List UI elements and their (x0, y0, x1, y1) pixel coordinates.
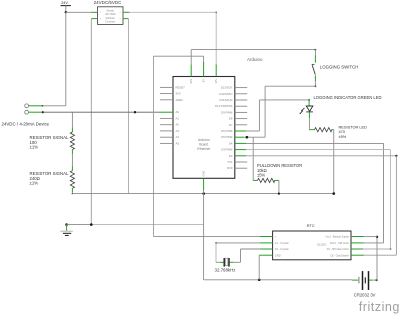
wire LED cathode to resistor (308, 118, 310, 130)
wire pulldown right down to GND rail (278, 180, 280, 193)
resistor RESISTOR LED 470 (309, 125, 367, 139)
arduino top pin legs (191, 62, 216, 77)
svg-text:CR2032 3V: CR2032 3V (354, 293, 376, 298)
svg-text:DS1302: DS1302 (317, 243, 327, 246)
arduino D5 pin leg and wire with junction (235, 136, 265, 139)
svg-text:OKI-78SR: OKI-78SR (105, 14, 116, 16)
rtc U2 DS1302 (273, 223, 351, 260)
svg-text:I/O - SPI Data In/Out: I/O - SPI Data In/Out (327, 248, 349, 251)
svg-text:Converter: Converter (105, 20, 115, 23)
svg-text:Arduino: Arduino (247, 57, 263, 62)
svg-text:RX0: RX0 (227, 166, 233, 170)
wire RTC GND down to bottom rail (258, 255, 260, 280)
wire LED resistor down to GND rail junction (332, 130, 335, 195)
svg-text:D8: D8 (229, 117, 233, 121)
wire connector pin1 to 24V line (29, 105, 66, 107)
battery CR2032 3V (352, 271, 376, 298)
arduino U1 Arduino Board Ethernet (173, 77, 235, 179)
svg-text:D13/SCK: D13/SCK (221, 86, 233, 90)
wire RTC CE to D2 drop (363, 254, 396, 256)
svg-text:Std Buck: Std Buck (106, 17, 116, 20)
wire crystal to RTC X2 (230, 249, 260, 262)
svg-text:24V: 24V (61, 1, 68, 5)
svg-text:A5: A5 (176, 141, 180, 145)
svg-text:24VDC/5VDC: 24VDC/5VDC (94, 0, 123, 5)
svg-text:A1: A1 (176, 116, 180, 120)
svg-text:2: 2 (100, 19, 101, 21)
wire D5 node down to pulldown resistor (252, 137, 254, 180)
wire 24V flag to converter input (66, 11, 91, 13)
wire battery plus up to RTC Vcc1 (363, 236, 378, 282)
switch LOGGING SWITCH (312, 56, 359, 82)
svg-text:A3: A3 (176, 129, 180, 133)
svg-text:X1 - Crystal: X1 - Crystal (275, 241, 289, 245)
svg-text:A0: A0 (176, 110, 180, 114)
arduino D2 pin leg and wire to RTC CE (235, 155, 398, 256)
wire RTC X1 to crystal (215, 242, 259, 262)
svg-text:A4: A4 (176, 135, 180, 139)
svg-text:D10 PWM/SS: D10 PWM/SS (215, 104, 232, 108)
led LOGGING INDICATOR GREEN LED (300, 95, 382, 118)
svg-text:±5%: ±5% (257, 173, 266, 178)
svg-text:D3 PWM: D3 PWM (221, 148, 233, 152)
svg-text:D6 PWM: D6 PWM (221, 129, 233, 133)
arduino A0 pin leg (160, 111, 173, 113)
wire arduino 3V3 up and over to logging switch (191, 49, 316, 65)
svg-text:D5 PWM: D5 PWM (221, 135, 233, 139)
wire switch bottom to D5 (265, 81, 316, 137)
svg-text:X2 - Crystal: X2 - Crystal (275, 247, 289, 251)
wire A0 node down to R1 (71, 112, 73, 127)
wire bottom GND rail to battery (204, 279, 352, 282)
wire 5V drop over to RTC Vcc2 (154, 236, 260, 238)
arduino D6 pin leg and wire to LED (235, 99, 310, 131)
svg-text:SCLK - SPI Clock: SCLK - SPI Clock (330, 242, 350, 245)
junction arduino GND (202, 192, 205, 195)
svg-text:fritzing: fritzing (359, 300, 400, 314)
arduino left unconnected pin stubs (160, 87, 173, 143)
svg-text:Vcc1 - Backup Supply: Vcc1 - Backup Supply (325, 236, 349, 239)
svg-text:LOGGING INDICATOR GREEN LED: LOGGING INDICATOR GREEN LED (314, 95, 382, 100)
svg-text:1: 1 (100, 12, 101, 14)
wire converter GND output down to GND rail (128, 19, 130, 194)
arduino D4 pin leg and wire to RTC SCLK (235, 143, 384, 243)
resistor PULLDOWN RESISTOR 10k (253, 163, 302, 182)
wire RTC IO to D3 drop (363, 248, 390, 250)
svg-text:D12/MISO: D12/MISO (219, 92, 233, 96)
rtc left pin labels (275, 236, 289, 258)
svg-text:Murata: Murata (107, 10, 115, 13)
svg-text:±5%: ±5% (339, 134, 347, 139)
resistor RESISTOR SIGNAL 100 1% (30, 127, 75, 154)
svg-text:±1%: ±1% (30, 181, 39, 186)
wire earth rail (ground to arduino GND drop) (67, 223, 204, 226)
svg-text:D11/MOSI: D11/MOSI (220, 98, 233, 102)
resistor RESISTOR SIGNAL 240 1% (30, 167, 75, 193)
arduino right pin labels (215, 86, 233, 171)
svg-text:CE - Chip Enable: CE - Chip Enable (330, 254, 349, 257)
arduino D3 pin leg and wire to RTC IO (235, 150, 391, 250)
arduino top pin labels 3V3 5V VIN (189, 78, 218, 83)
svg-text:RESET: RESET (176, 85, 186, 89)
svg-text:RTC: RTC (307, 223, 315, 228)
svg-text:D7: D7 (229, 123, 233, 127)
svg-text:GND: GND (202, 171, 206, 177)
rtc pin legs (259, 237, 364, 256)
ground symbol (60, 223, 72, 235)
dc-dc converter 24VDC/5VDC (91, 0, 130, 24)
connector 24VDC / 4-20mA Device (2, 104, 50, 127)
crystal 32.768kHz (215, 258, 236, 272)
svg-text:Board: Board (199, 143, 208, 147)
svg-text:A2: A2 (176, 123, 180, 127)
svg-text:D2: D2 (229, 154, 233, 158)
svg-text:D4: D4 (229, 141, 233, 145)
svg-text:32.768kHz: 32.768kHz (215, 267, 236, 272)
wire R1 to R2 (71, 154, 73, 166)
svg-text:Ethernet: Ethernet (197, 147, 210, 151)
svg-text:TX1: TX1 (227, 160, 233, 164)
svg-text:Arduino: Arduino (198, 138, 210, 142)
wire RTC SCLK to D4 drop (363, 242, 384, 244)
svg-text:3V3: 3V3 (176, 92, 181, 96)
wire converter GND input down to earth rail (90, 19, 92, 225)
wire arduino 5V up and left to RTC supply drop (154, 56, 204, 236)
arduino right unconnected pin stubs (235, 88, 247, 169)
svg-text:±1%: ±1% (30, 145, 39, 150)
svg-text:24VDC / 4-20mA Device: 24VDC / 4-20mA Device (2, 121, 50, 126)
wire converter 5V output to arduino VIN (130, 12, 218, 67)
arduino left pin labels (176, 85, 186, 145)
rtc right pin labels (325, 236, 349, 258)
svg-text:5V: 5V (202, 79, 206, 82)
wire 24V line down to connector pin1 (65, 12, 67, 106)
power flag 24V (61, 1, 71, 13)
svg-text:D9 PWM: D9 PWM (221, 110, 233, 114)
svg-text:LOGGING SWITCH: LOGGING SWITCH (320, 64, 359, 69)
svg-text:VIN: VIN (214, 79, 218, 83)
svg-text:AREF: AREF (176, 98, 184, 102)
svg-text:GND: GND (275, 253, 281, 257)
svg-text:3V3: 3V3 (189, 78, 193, 83)
wire GND rail (R2 to LED/pulldown junction) (72, 193, 333, 195)
svg-text:3: 3 (120, 19, 121, 21)
wire connector pin2 to arduino A0 (29, 111, 160, 113)
arduino GND pin leg and drop (203, 178, 205, 279)
svg-text:4: 4 (120, 12, 121, 14)
wire R2 bottom corner to GND rail (72, 192, 73, 194)
